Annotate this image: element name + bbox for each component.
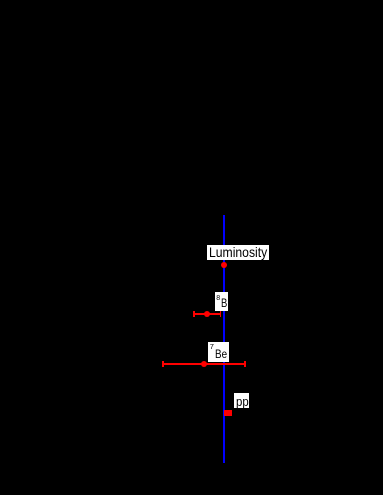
8B error bar right cap (220, 311, 222, 317)
pp data point (square marker) (224, 410, 232, 416)
7Be error bar horizontal (162, 363, 246, 365)
8B label box (215, 292, 228, 311)
7Be label box (208, 342, 229, 362)
blue model prediction line (223, 215, 226, 463)
8B data point (204, 311, 210, 317)
Luminosity data point (221, 262, 227, 268)
8B error bar horizontal (193, 313, 221, 315)
7Be error bar left cap (162, 361, 164, 367)
pp label box (234, 393, 249, 408)
8B error bar left cap (193, 311, 195, 317)
Luminosity label box (207, 245, 269, 260)
7Be error bar right cap (244, 361, 246, 367)
7Be data point (201, 361, 207, 367)
